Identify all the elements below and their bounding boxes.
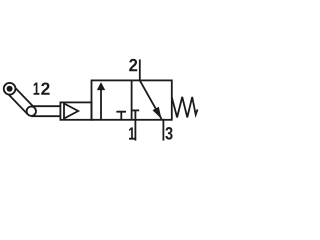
flow path 2->3 diagonal — [140, 80, 162, 119]
lever arm (two parallel links roller->pivot) — [6, 85, 34, 114]
port 2 line — [139, 59, 141, 80]
flow path arrowhead — [153, 107, 162, 119]
roller circle — [4, 83, 16, 95]
left square blocked port T — [116, 112, 126, 120]
pivot circle — [27, 107, 36, 116]
left square flow arrow (1->2) stem — [100, 90, 102, 120]
right square blocked port 1 T — [131, 109, 139, 111]
plunger rod (two horizontal lines pivot->pilot box) — [31, 106, 60, 116]
valve body — [92, 80, 172, 119]
port 1 line (stem through body bottom) — [134, 110, 136, 140]
port 3 line — [162, 119, 164, 141]
label 1 — [129, 127, 135, 139]
roller inner dot — [7, 86, 13, 92]
left square flow arrowhead — [97, 82, 105, 90]
return spring — [172, 97, 198, 118]
label 12 — [34, 83, 40, 95]
pilot triangle — [64, 104, 78, 119]
label 2 — [129, 59, 137, 71]
divider between squares — [131, 80, 133, 119]
pilot box — [60, 102, 91, 119]
label 3 — [165, 127, 172, 140]
